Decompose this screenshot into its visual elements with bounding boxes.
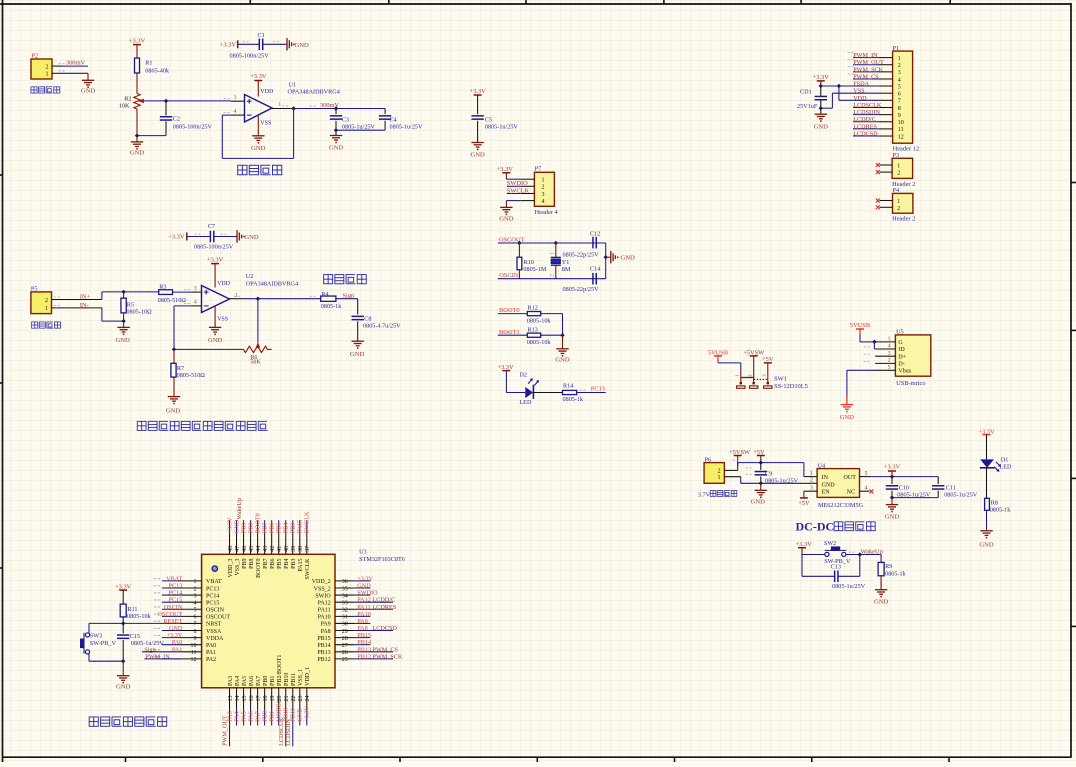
svg-text:9: 9 — [898, 113, 901, 119]
junction — [560, 333, 564, 337]
svg-text:GND: GND — [751, 498, 766, 505]
svg-text:PB5: PB5 — [277, 559, 283, 569]
svg-text:GND: GND — [329, 145, 344, 152]
svg-text:C11: C11 — [946, 484, 956, 491]
svg-text:FSDA: FSDA — [853, 81, 869, 88]
svg-text:C1: C1 — [258, 32, 265, 39]
svg-text:+3.3V: +3.3V — [167, 632, 183, 639]
svg-text:43: 43 — [263, 546, 269, 552]
svg-text:VDD_2: VDD_2 — [312, 579, 331, 585]
svg-text:LED: LED — [1000, 464, 1013, 471]
svg-text:DC-DC: DC-DC — [796, 520, 835, 534]
svg-text:4: 4 — [234, 109, 237, 115]
svg-text:CD1: CD1 — [800, 89, 812, 96]
feedback wire U2 — [174, 305, 191, 307]
resistor R12 — [527, 312, 540, 316]
svg-text:PB14: PB14 — [317, 643, 330, 649]
svg-text:VDD: VDD — [217, 281, 231, 287]
svg-text:VDD: VDD — [260, 89, 274, 95]
svg-text:GND: GND — [499, 215, 514, 222]
svg-text:PB6: PB6 — [270, 559, 276, 569]
svg-text:PB7: PB7 — [261, 523, 268, 534]
svg-text:PA6: PA6 — [249, 676, 255, 686]
svg-text:PB0: PB0 — [263, 676, 269, 686]
wire +5VSW to SW1 pin2 — [753, 363, 755, 372]
svg-text:GND: GND — [81, 88, 96, 95]
svg-text:R1: R1 — [145, 59, 152, 66]
svg-text:LED: LED — [519, 399, 532, 406]
svg-text:SWIO: SWIO — [315, 593, 331, 599]
U3 pin 1 VBAT — [162, 580, 181, 582]
U3 pin 45 PB8 — [250, 534, 252, 555]
erc marks — [224, 98, 226, 100]
wire VSS pin6 — [832, 92, 878, 94]
svg-text:+5V: +5V — [762, 356, 774, 363]
svg-text:PA9: PA9 — [321, 622, 331, 628]
svg-text:40: 40 — [284, 546, 290, 552]
U3 pin 30 PA9 — [335, 622, 355, 624]
svg-text:+3.3V: +3.3V — [884, 463, 901, 470]
svg-text:U1: U1 — [289, 82, 297, 89]
svg-text:PB13: PB13 — [317, 650, 330, 656]
svg-text:8: 8 — [898, 106, 901, 112]
svg-text:PB11: PB11 — [291, 673, 297, 686]
svg-text:C4: C4 — [390, 116, 397, 123]
svg-text:12: 12 — [191, 657, 197, 663]
wire LED to R14 — [533, 392, 562, 394]
svg-text:GND: GND — [555, 357, 570, 364]
svg-text:PB3: PB3 — [291, 559, 297, 569]
svg-text:PWM_CS: PWM_CS — [853, 73, 879, 80]
svg-text:LCDRES: LCDRES — [853, 123, 877, 130]
svg-text:GND: GND — [251, 145, 266, 152]
junction — [759, 460, 763, 464]
U3 pin 4 PC15 — [162, 601, 181, 603]
svg-text:ID: ID — [898, 347, 905, 353]
wire P1 pin10 — [853, 121, 878, 123]
svg-text:21: 21 — [284, 696, 290, 702]
svg-text:4: 4 — [194, 600, 197, 606]
svg-text:LCDCSD: LCDCSD — [373, 625, 398, 632]
svg-text:NC: NC — [847, 490, 855, 496]
svg-text:25V1uF: 25V1uF — [797, 103, 818, 110]
svg-text:VBAT: VBAT — [206, 579, 222, 585]
svg-text:PB4: PB4 — [283, 523, 290, 534]
svg-text:R12: R12 — [528, 305, 538, 312]
wire R3 to U2 pin3 — [173, 291, 192, 293]
svg-text:10: 10 — [191, 643, 197, 649]
svg-text:25: 25 — [342, 657, 348, 663]
svg-text:PB9: PB9 — [242, 559, 248, 569]
capacitor C9 — [760, 463, 762, 470]
svg-text:4: 4 — [888, 344, 891, 350]
junction — [334, 128, 338, 132]
svg-text:GND: GND — [814, 123, 829, 130]
svg-text:PA0: PA0 — [206, 643, 216, 649]
wire P7 pin4 to GND — [521, 200, 535, 202]
svg-text:WakeUp: WakeUp — [236, 498, 243, 520]
junction — [164, 99, 168, 103]
svg-text:P7: P7 — [535, 166, 542, 173]
svg-text:18: 18 — [263, 696, 269, 702]
svg-text:SS-12D10L5: SS-12D10L5 — [774, 383, 808, 390]
wire R11 to NRST row — [122, 617, 124, 624]
wire P1 pin2 — [853, 64, 878, 66]
resistor R10 — [518, 243, 520, 257]
svg-text:38: 38 — [298, 546, 304, 552]
svg-text:LCDSCLK: LCDSCLK — [278, 717, 285, 746]
svg-text:GND: GND — [233, 519, 240, 533]
U3 pin 41 PB5 — [278, 534, 280, 555]
junction — [890, 495, 894, 499]
svg-text:SWCLK: SWCLK — [304, 511, 311, 533]
svg-text:0805-10k: 0805-10k — [527, 339, 552, 346]
ground R9 — [875, 589, 887, 591]
resistor R11 — [120, 604, 126, 617]
svg-text:GND: GND — [297, 708, 304, 722]
svg-text:1: 1 — [810, 471, 813, 477]
U3 pin 20 PB2/BOOT1 — [278, 688, 280, 710]
svg-text:PA1: PA1 — [206, 650, 216, 656]
svg-text:OUT: OUT — [844, 475, 857, 481]
op-amp U2 OPA348AIDBVRG4 — [202, 286, 230, 313]
svg-text:PB9: PB9 — [240, 523, 247, 534]
svg-text:+3.3V: +3.3V — [220, 42, 237, 49]
connector P2 — [31, 59, 52, 79]
svg-text:USB-mrico: USB-mrico — [896, 380, 925, 387]
ground R8 — [980, 530, 992, 532]
U3 pin 15 PA5 — [243, 688, 245, 710]
svg-text:0805-10Ω: 0805-10Ω — [126, 309, 152, 316]
svg-text:SW1: SW1 — [774, 375, 787, 382]
USB connector U5 USB-mrico — [895, 335, 930, 376]
svg-text:+3.3V: +3.3V — [129, 38, 146, 45]
resistor R4 — [321, 296, 336, 301]
sheet border frame — [2, 0, 4, 762]
svg-text:1: 1 — [898, 56, 901, 62]
U5 pin 3 D+ — [875, 355, 895, 357]
svg-text:10: 10 — [898, 120, 904, 126]
U3 pin 17 PA7 — [257, 688, 259, 710]
svg-text:LCDSDIN: LCDSDIN — [285, 719, 292, 746]
capacitor C12 — [592, 237, 594, 249]
svg-text:6: 6 — [898, 92, 901, 98]
svg-text:2: 2 — [897, 206, 900, 212]
U3 pin 34 SWIO — [335, 594, 355, 596]
svg-text:11: 11 — [898, 127, 904, 133]
svg-text:PA10: PA10 — [357, 611, 371, 618]
capacitor C8 — [357, 299, 359, 315]
wire R9 to GND — [880, 576, 882, 590]
U5 pin 4 ID — [875, 348, 895, 350]
svg-text:5VUSB: 5VUSB — [850, 322, 870, 329]
svg-text:29: 29 — [342, 629, 348, 635]
svg-text:P2: P2 — [32, 53, 39, 60]
MCU U3 STM32F103C8T6 — [202, 554, 335, 688]
U3 pin 25 PB12 — [335, 658, 355, 660]
svg-text:GND: GND — [130, 150, 145, 157]
svg-text:R14: R14 — [563, 383, 573, 390]
U3 pin 21 PB10 — [285, 688, 287, 710]
title 无源滤波 — [324, 275, 333, 284]
svg-text:PB0: PB0 — [261, 711, 268, 722]
regulator U4 ME6212C33M5G — [817, 469, 859, 498]
svg-text:+3.3V: +3.3V — [304, 705, 311, 721]
resistor R3 — [159, 290, 173, 295]
svg-text:ME6212C33M5G: ME6212C33M5G — [818, 502, 864, 509]
U3 pin 40 PB4 — [285, 534, 287, 555]
U3 pin 48 VDD_3 — [229, 534, 231, 555]
svg-text:PC14: PC14 — [206, 593, 219, 599]
svg-text:C2: C2 — [173, 116, 180, 123]
U5 pin 2 D- — [875, 362, 895, 364]
capacitor C11 — [937, 477, 939, 484]
svg-text:17: 17 — [256, 696, 262, 702]
svg-text:LCDRES: LCDRES — [373, 604, 397, 611]
svg-text:2: 2 — [897, 171, 900, 177]
capacitor C14 — [592, 273, 594, 285]
LED D1 — [980, 459, 994, 467]
U3 pin 43 PB7 — [264, 534, 266, 555]
U2 pin 3 — [191, 291, 201, 293]
op-amp U1 OPA348AIDBVRG4 — [245, 95, 273, 123]
svg-text:OSCIN: OSCIN — [206, 608, 225, 614]
svg-text:PB12: PB12 — [357, 653, 371, 660]
U1 VSS GND — [257, 115, 259, 136]
svg-text:4: 4 — [194, 300, 197, 306]
U3 pin 47 VSS_3 — [236, 534, 238, 555]
svg-text:Sign: Sign — [343, 292, 356, 299]
U3 pin 37 SWCLK — [306, 534, 308, 555]
title 单片机最小系统 — [89, 717, 98, 726]
svg-text:GND: GND — [885, 513, 900, 520]
svg-text:47: 47 — [235, 546, 241, 552]
wire SW3 to C15 bottom — [88, 654, 90, 661]
erc marks mcu left — [154, 578, 156, 580]
capacitor C2 — [165, 101, 167, 116]
switch SW1 SS-12D10L5 — [740, 372, 742, 384]
svg-text:VDDA: VDDA — [206, 636, 224, 642]
svg-text:R7: R7 — [177, 365, 184, 372]
svg-text:GND: GND — [166, 407, 181, 414]
svg-text:PWM_SCK: PWM_SCK — [373, 653, 403, 660]
svg-text:VSS: VSS — [853, 88, 865, 95]
svg-text:24: 24 — [305, 696, 311, 702]
svg-text:VDD_1: VDD_1 — [305, 667, 311, 686]
U3 pin 42 PB6 — [271, 534, 273, 555]
svg-text:PA11: PA11 — [357, 604, 370, 611]
svg-text:22: 22 — [291, 696, 297, 702]
U3 pin 7 NRST — [181, 622, 202, 624]
U4 pin 3 EN — [804, 490, 817, 492]
ground R7 — [168, 396, 180, 398]
capacitor C3 — [334, 106, 338, 110]
svg-text:0805-1u/25V: 0805-1u/25V — [342, 124, 376, 131]
wire R2 to opamp U1 pin3 — [166, 100, 231, 102]
junction — [604, 255, 608, 259]
svg-text:WakeUp: WakeUp — [861, 549, 883, 556]
svg-text:U5: U5 — [896, 329, 904, 336]
svg-text:VSS: VSS — [260, 120, 271, 126]
svg-text:R5: R5 — [127, 301, 134, 308]
svg-text:6: 6 — [194, 615, 197, 621]
wire VDD drop to pin7 — [838, 86, 840, 100]
svg-text:PA9: PA9 — [357, 618, 367, 625]
U3 pin 8 VSSA — [162, 630, 181, 632]
junction — [837, 84, 841, 88]
svg-text:VDD_3: VDD_3 — [228, 559, 234, 578]
svg-text:C9: C9 — [765, 470, 772, 477]
wire output to R4 — [243, 298, 320, 300]
wire NRST rail — [89, 622, 181, 624]
svg-text:5: 5 — [888, 365, 891, 371]
wire right vertical osc — [605, 243, 607, 279]
wire +5V rail to U4 IN — [738, 462, 804, 464]
ground — [82, 79, 94, 81]
svg-text:PB8: PB8 — [249, 559, 255, 569]
wire riser to bottom rail — [101, 308, 103, 321]
junction — [819, 84, 823, 88]
svg-text:15: 15 — [242, 696, 248, 702]
U3 pin 23 VSS_1 — [299, 688, 301, 710]
wire P1 pin1 — [853, 57, 878, 59]
svg-text:PA8: PA8 — [321, 629, 331, 635]
svg-text:PA5: PA5 — [240, 711, 247, 721]
svg-text:PC13: PC13 — [206, 586, 219, 592]
resistor R13 — [527, 333, 540, 337]
svg-text:PB13: PB13 — [357, 646, 371, 653]
svg-text:PA4: PA4 — [233, 711, 240, 721]
svg-text:P1: P1 — [893, 45, 900, 52]
U5 pin 5 Vbus — [875, 369, 895, 371]
svg-text:0805-10k: 0805-10k — [127, 613, 152, 620]
svg-text:PB2/BOOT1: PB2/BOOT1 — [277, 655, 283, 686]
svg-text:8: 8 — [194, 629, 197, 635]
label 电压输出 — [31, 87, 37, 93]
svg-text:PC13: PC13 — [591, 386, 605, 393]
junction — [858, 552, 862, 556]
wire R8 to GND — [986, 510, 988, 531]
U3 pin 2 PC13 — [162, 587, 181, 589]
svg-text:0805-510Ω: 0805-510Ω — [158, 297, 187, 304]
U3 pin 24 VDD_1 — [306, 688, 308, 710]
U3 pin 29 PA8 — [335, 630, 355, 632]
U3 pin 22 PB11 — [292, 688, 294, 710]
svg-text:PA7: PA7 — [256, 676, 262, 686]
svg-text:D1: D1 — [1001, 456, 1009, 463]
svg-text:30: 30 — [342, 622, 348, 628]
svg-text:PA7: PA7 — [254, 711, 261, 721]
svg-text:34: 34 — [342, 593, 348, 599]
U3 pin 35 VSS_2 — [335, 587, 355, 589]
wire P1 pin5 rail — [821, 85, 879, 87]
junction — [759, 481, 763, 485]
U3 pin 5 OSCIN — [162, 608, 181, 610]
svg-text:U3: U3 — [359, 549, 367, 556]
U3 pin 13 PA3 — [229, 688, 231, 710]
svg-text:SWDIO: SWDIO — [357, 590, 378, 597]
svg-text:0805-1M: 0805-1M — [523, 266, 547, 273]
svg-text:VSSA: VSSA — [206, 629, 222, 635]
junction — [291, 106, 295, 110]
capacitor C15 — [122, 623, 124, 633]
junction — [172, 347, 176, 351]
U3 pin 9 VDDA — [162, 637, 181, 639]
svg-text:VSS_2: VSS_2 — [314, 586, 331, 592]
svg-text:GND: GND — [874, 598, 889, 605]
svg-text:37: 37 — [305, 546, 311, 552]
switch SW3 SW-PB_V — [88, 623, 90, 633]
U3 pin 33 PA12 — [335, 601, 355, 603]
svg-text:11: 11 — [191, 650, 197, 656]
wire 5VUSB to U5 pin1/pin4 — [859, 335, 861, 342]
svg-text:23: 23 — [298, 696, 304, 702]
svg-text:GND: GND — [208, 337, 223, 344]
svg-text:PA5: PA5 — [242, 676, 248, 686]
svg-text:PC15: PC15 — [169, 597, 183, 604]
svg-text:LCDD/C: LCDD/C — [853, 116, 876, 123]
svg-text:BOOT0: BOOT0 — [256, 559, 262, 578]
svg-text:OSCIN: OSCIN — [164, 604, 183, 611]
ground P7 — [500, 206, 512, 208]
U3 pin 16 PA6 — [250, 688, 252, 710]
svg-text:GND: GND — [295, 42, 310, 49]
crystal Y1 8M — [555, 243, 557, 257]
svg-text:LCDD/C: LCDD/C — [373, 597, 396, 604]
svg-text:2: 2 — [542, 185, 545, 191]
svg-text:PB12: PB12 — [317, 657, 330, 663]
junction — [517, 241, 521, 245]
svg-text:+3.3V: +3.3V — [469, 88, 486, 95]
svg-text:2: 2 — [810, 478, 813, 484]
svg-text:PB15: PB15 — [357, 632, 371, 639]
svg-text:PWM_OUT: PWM_OUT — [853, 59, 884, 66]
svg-text:D-: D- — [898, 362, 904, 368]
wire P1 pin3 — [853, 71, 878, 73]
wire P4 pin1 nc — [880, 200, 893, 202]
svg-text:4: 4 — [865, 486, 868, 492]
svg-text:RESET: RESET — [163, 618, 182, 625]
U3 pin 18 PB0 — [264, 688, 266, 710]
ground R5 — [123, 321, 125, 327]
svg-text:D+: D+ — [898, 354, 906, 360]
U2 VSS GND — [214, 306, 216, 327]
U4 pin 1 — [804, 476, 817, 478]
ground C8 — [352, 340, 364, 342]
svg-text:+3.3V: +3.3V — [168, 234, 185, 241]
svg-text:+3.3V: +3.3V — [250, 73, 267, 80]
potentiometer R6 — [256, 342, 261, 348]
svg-text:VSS: VSS — [217, 317, 228, 323]
svg-text:PA12: PA12 — [318, 600, 331, 606]
wire P1 pin8 — [853, 107, 878, 109]
U4 pin 4 NC — [860, 490, 870, 492]
svg-text:0805-1k: 0805-1k — [563, 396, 585, 403]
connector P1 Header 12 — [893, 51, 913, 143]
svg-text:33: 33 — [342, 600, 348, 606]
erc marks mcu left — [154, 578, 156, 580]
wire P1 pin11 — [853, 128, 878, 130]
svg-text:0805-510Ω: 0805-510Ω — [177, 372, 206, 379]
svg-text:C14: C14 — [590, 266, 600, 273]
svg-text:LCDSDIN: LCDSDIN — [853, 109, 880, 116]
svg-text:PA15: PA15 — [297, 520, 304, 534]
svg-text:46: 46 — [242, 546, 248, 552]
junction — [135, 133, 139, 137]
resistor R1 — [136, 51, 138, 66]
svg-text:1: 1 — [278, 102, 281, 108]
svg-text:STM32F103C8T6: STM32F103C8T6 — [359, 556, 405, 563]
